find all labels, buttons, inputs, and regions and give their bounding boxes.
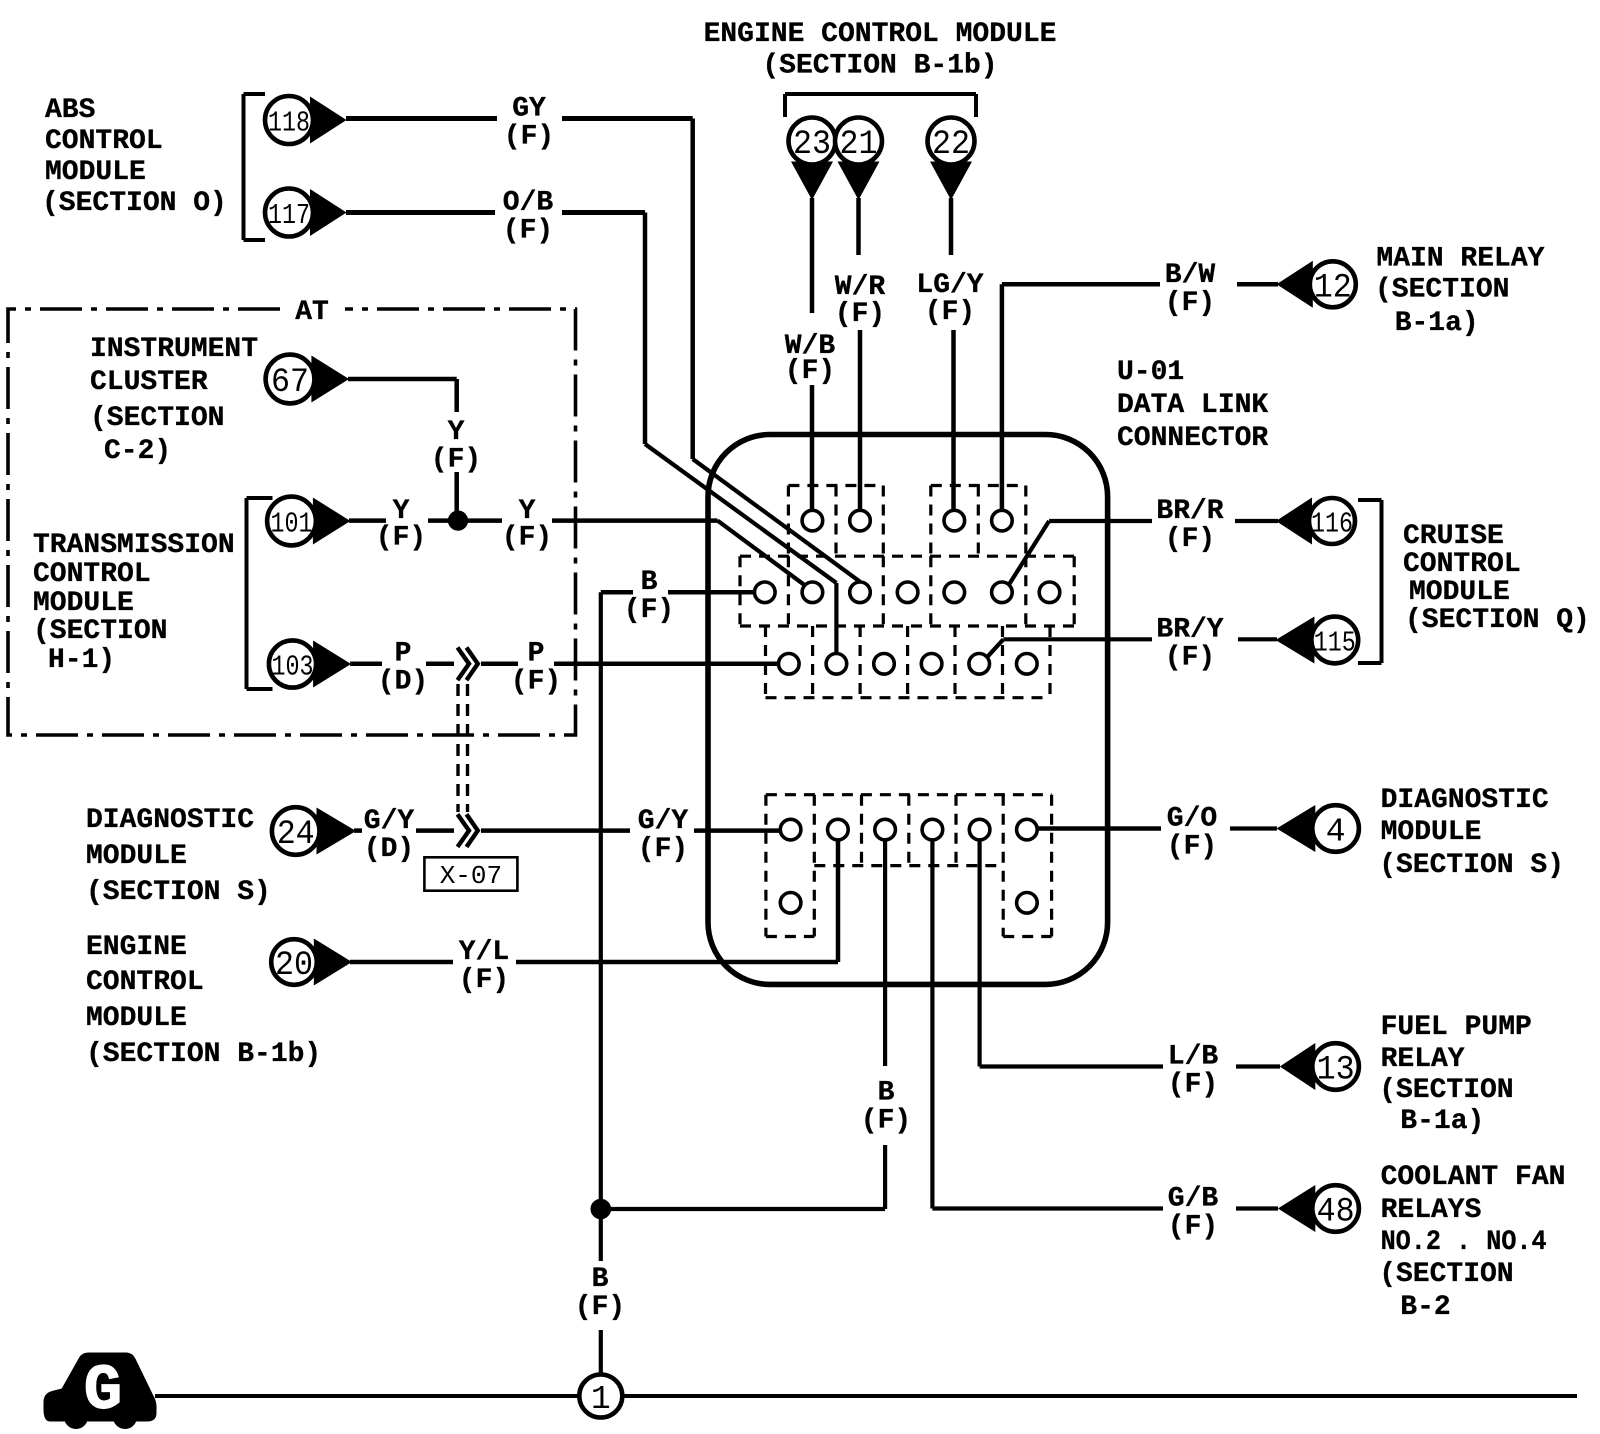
svg-text:P: P <box>395 639 412 670</box>
splice harness dashed pair X-07 <box>458 684 468 812</box>
svg-text:CONNECTOR: CONNECTOR <box>1117 423 1268 454</box>
svg-text:(F): (F) <box>861 1105 911 1136</box>
ABS bracket <box>244 94 266 240</box>
svg-text:(F): (F) <box>1167 831 1217 862</box>
svg-text:B-1a): B-1a) <box>1395 308 1479 339</box>
svg-text:G/B: G/B <box>1168 1183 1219 1214</box>
connector circle 67 with arrow <box>266 355 349 404</box>
connector circle 117 with arrow <box>265 189 347 237</box>
DLC row1 pins <box>802 510 1012 531</box>
svg-text:CONTROL: CONTROL <box>1403 549 1521 580</box>
connector circle 24 with arrow <box>272 807 356 855</box>
svg-text:103: 103 <box>272 650 314 683</box>
label MAIN RELAY (SECTION B-1a) <box>1375 243 1545 339</box>
label B (F) middle <box>861 1077 911 1136</box>
wire G/B from DLC row4 pin to coolant fan relays <box>932 841 1278 1209</box>
svg-text:B/W: B/W <box>1165 260 1216 291</box>
label AT <box>295 297 329 328</box>
DLC row3 pins <box>779 654 1038 675</box>
label BR/Y (F) <box>1156 614 1223 673</box>
svg-text:(F): (F) <box>504 121 554 152</box>
wire W/R from pin 21 to DLC pin row1-b <box>859 198 861 511</box>
svg-text:TRANSMISSION: TRANSMISSION <box>33 530 235 561</box>
svg-text:(F): (F) <box>459 965 509 996</box>
svg-text:(F): (F) <box>835 299 885 330</box>
junction dot B wire <box>591 1199 611 1219</box>
svg-text:MODULE: MODULE <box>1381 817 1482 848</box>
label COOLANT FAN RELAYS NO.2 NO.4 (SECTION B-2 <box>1379 1162 1565 1323</box>
svg-text:13: 13 <box>1317 1052 1355 1090</box>
svg-text:117: 117 <box>268 199 310 232</box>
svg-text:(SECTION: (SECTION <box>90 403 224 434</box>
wire L/B from DLC row4 pin to fuel pump relay <box>980 841 1280 1067</box>
connector circle 12 with arrow <box>1277 261 1356 308</box>
label TRANSMISSION CONTROL MODULE (SECTION H-1) <box>33 530 235 676</box>
svg-text:MODULE: MODULE <box>33 588 134 619</box>
svg-text:GY: GY <box>512 93 546 124</box>
svg-text:115: 115 <box>1314 626 1356 659</box>
connector circle 4 with arrow <box>1277 805 1359 852</box>
label ENGINE CONTROL MODULE (SECTION B-1b) left <box>86 932 321 1070</box>
svg-text:MODULE: MODULE <box>45 157 146 188</box>
svg-text:ENGINE CONTROL MODULE: ENGINE CONTROL MODULE <box>704 19 1057 50</box>
svg-text:RELAY: RELAY <box>1381 1044 1465 1075</box>
ground bus wire <box>155 1394 1577 1398</box>
svg-text:(SECTION: (SECTION <box>1379 1075 1513 1106</box>
svg-text:G/Y: G/Y <box>638 806 689 837</box>
svg-text:(SECTION O): (SECTION O) <box>42 188 227 219</box>
svg-text:(SECTION: (SECTION <box>1379 1259 1513 1290</box>
svg-text:MODULE: MODULE <box>86 1003 187 1034</box>
svg-text:ENGINE: ENGINE <box>86 932 187 963</box>
label CRUISE CONTROL MODULE (SECTION Q) <box>1403 521 1590 636</box>
svg-text:B: B <box>592 1264 609 1295</box>
label Y (F) on 67 wire <box>431 417 481 476</box>
svg-text:BR/Y: BR/Y <box>1156 614 1223 645</box>
svg-text:(F): (F) <box>1165 288 1215 319</box>
label GY (F) <box>504 93 554 152</box>
label W/B (F) <box>785 331 836 387</box>
svg-text:(F): (F) <box>1168 1211 1218 1242</box>
DLC row4 pins <box>780 819 1037 840</box>
label B (F) bottom <box>575 1264 625 1323</box>
svg-text:DATA LINK: DATA LINK <box>1117 390 1268 421</box>
wire W/B from pin 23 to DLC pin row1-a <box>810 198 815 511</box>
svg-text:B: B <box>641 567 658 598</box>
label LG/Y (F) <box>916 270 983 328</box>
wire G/O from DLC row4 pin to diagnostic module <box>1038 826 1278 831</box>
svg-text:DIAGNOSTIC: DIAGNOSTIC <box>1381 785 1549 816</box>
svg-text:(D): (D) <box>364 834 414 865</box>
U-01 data link connector outline <box>708 435 1108 985</box>
svg-text:RELAYS: RELAYS <box>1381 1195 1482 1226</box>
svg-text:12: 12 <box>1314 270 1352 308</box>
svg-text:(F): (F) <box>511 667 561 698</box>
svg-text:(SECTION: (SECTION <box>33 616 167 647</box>
svg-text:C-2): C-2) <box>104 436 171 467</box>
label DIAGNOSTIC MODULE (SECTION S) right <box>1379 785 1564 881</box>
TCM bracket <box>247 498 273 689</box>
label DIAGNOSTIC MODULE (SECTION S) <box>86 805 271 908</box>
connector circle 23 with arrow <box>789 118 836 201</box>
connector circle 118 with arrow <box>265 96 347 144</box>
svg-text:MAIN RELAY: MAIN RELAY <box>1376 243 1544 274</box>
label O/B (F) <box>503 187 554 246</box>
svg-text:FUEL PUMP: FUEL PUMP <box>1381 1012 1532 1043</box>
label FUEL PUMP RELAY (SECTION B-1a) <box>1379 1012 1532 1137</box>
label INSTRUMENT CLUSTER (SECTION C-2) <box>90 334 258 467</box>
connector circle 48 with arrow <box>1278 1185 1359 1232</box>
connector circle 115 with arrow <box>1276 617 1359 664</box>
svg-text:U-01: U-01 <box>1117 357 1184 388</box>
svg-text:ABS: ABS <box>45 95 95 126</box>
wire Y from 67 to junction <box>348 379 457 514</box>
ECM bracket <box>785 94 976 117</box>
label G/B (F) <box>1168 1183 1219 1242</box>
svg-text:(F): (F) <box>624 595 674 626</box>
svg-text:(F): (F) <box>785 356 835 387</box>
connector circle 103 with arrow <box>269 640 351 687</box>
svg-text:DIAGNOSTIC: DIAGNOSTIC <box>86 805 254 836</box>
svg-text:(F): (F) <box>1168 1069 1218 1100</box>
label Y (F) first <box>376 496 426 554</box>
svg-text:P: P <box>528 639 545 670</box>
svg-text:MODULE: MODULE <box>1409 577 1510 608</box>
wire Y from 101 through junction into DLC, diagonal to row2 pin <box>349 521 807 587</box>
svg-text:AT: AT <box>295 297 329 328</box>
label B/W (F) <box>1165 260 1216 319</box>
label P (D) <box>378 639 428 698</box>
svg-text:O/B: O/B <box>503 187 554 218</box>
ground connector circle 1 <box>579 1375 622 1418</box>
svg-text:L/B: L/B <box>1168 1041 1219 1072</box>
DLC row2 pins <box>755 582 1060 603</box>
connector circle 21 with arrow <box>835 118 882 201</box>
svg-text:24: 24 <box>277 816 315 854</box>
wire O/B: horizontal from 117, down, diagonal to DLC row3 pin <box>346 213 836 654</box>
svg-text:21: 21 <box>840 126 878 164</box>
svg-text:G/O: G/O <box>1167 803 1217 834</box>
svg-text:48: 48 <box>1317 1194 1355 1232</box>
wire B from DLC row2 pin left, down to junction <box>601 592 754 1209</box>
label Y (F) second <box>502 496 552 554</box>
svg-text:(F): (F) <box>376 522 426 553</box>
svg-text:CRUISE: CRUISE <box>1403 521 1504 552</box>
svg-text:(SECTION B-1b): (SECTION B-1b) <box>762 50 997 81</box>
wire LG/Y from pin 22 to DLC pin row1-c <box>951 198 954 511</box>
label P (F) <box>511 639 561 698</box>
svg-text:CONTROL: CONTROL <box>45 126 163 157</box>
junction dot Y wire <box>448 511 467 530</box>
svg-text:(D): (D) <box>378 667 428 698</box>
X-07 box <box>424 857 517 891</box>
wire BR/R from DLC row2 pin to cruise control <box>1009 521 1278 585</box>
svg-text:(SECTION S): (SECTION S) <box>1379 850 1564 881</box>
svg-text:4: 4 <box>1326 813 1346 850</box>
wire B to ground connector 1 <box>599 1209 603 1374</box>
svg-text:Y: Y <box>448 417 465 448</box>
svg-text:(F): (F) <box>431 444 481 475</box>
svg-text:B: B <box>878 1077 895 1108</box>
label W/R (F) <box>835 272 886 330</box>
svg-text:B-2: B-2 <box>1400 1292 1450 1323</box>
svg-text:Y/L: Y/L <box>459 937 509 968</box>
svg-text:(F): (F) <box>502 522 552 553</box>
svg-text:(F): (F) <box>1165 524 1215 555</box>
label Y/L (F) <box>459 937 509 996</box>
svg-text:NO.2 . NO.4: NO.2 . NO.4 <box>1381 1227 1547 1258</box>
wire Y/L from 20 into DLC to row4 pin <box>350 841 838 963</box>
svg-text:(F): (F) <box>503 215 553 246</box>
splice chevrons on P wire <box>458 648 478 681</box>
wire B from DLC row4 pin down to junction <box>601 841 885 1210</box>
svg-text:(SECTION S): (SECTION S) <box>86 877 271 908</box>
label BR/R (F) <box>1156 496 1223 555</box>
svg-text:H-1): H-1) <box>48 645 115 676</box>
DLC row3 dashed band <box>766 626 1051 698</box>
connector circle 101 with arrow <box>267 497 350 546</box>
svg-text:22: 22 <box>932 126 970 164</box>
wire P from 103 to DLC row3 pin <box>350 662 779 667</box>
wire BR/Y from DLC row3 pin to cruise control <box>988 639 1278 656</box>
AT harness box (dash-dot) <box>8 309 576 735</box>
svg-text:(SECTION B-1b): (SECTION B-1b) <box>86 1039 321 1070</box>
svg-text:MODULE: MODULE <box>86 841 187 872</box>
connector circle 116 with arrow <box>1276 498 1355 545</box>
svg-text:CONTROL: CONTROL <box>86 967 204 998</box>
label ENGINE CONTROL MODULE (SECTION B-1b) <box>704 19 1057 81</box>
svg-text:G: G <box>84 1356 122 1428</box>
svg-text:(SECTION Q): (SECTION Q) <box>1405 605 1590 636</box>
label U-01 DATA LINK CONNECTOR <box>1117 357 1268 454</box>
DLC row5 pins <box>780 893 1037 914</box>
svg-text:BR/R: BR/R <box>1156 496 1223 527</box>
svg-text:116: 116 <box>1311 507 1353 540</box>
connector circle 22 with arrow <box>928 118 975 201</box>
svg-text:B-1a): B-1a) <box>1400 1106 1484 1137</box>
svg-text:23: 23 <box>793 126 831 164</box>
label B (F) row2 <box>624 567 674 626</box>
cruise bracket <box>1358 500 1382 663</box>
svg-text:COOLANT FAN: COOLANT FAN <box>1381 1162 1566 1193</box>
wire B/W from DLC row1 pin to main relay <box>1002 284 1278 510</box>
label G/Y (D) <box>364 806 415 865</box>
svg-text:INSTRUMENT: INSTRUMENT <box>90 334 258 365</box>
svg-text:G/Y: G/Y <box>364 806 415 837</box>
svg-text:67: 67 <box>271 364 309 402</box>
label ABS CONTROL MODULE (SECTION O) <box>42 95 227 219</box>
svg-text:(F): (F) <box>1165 642 1215 673</box>
svg-text:(F): (F) <box>638 834 688 865</box>
svg-text:(SECTION: (SECTION <box>1375 274 1509 305</box>
wire G/Y from 24 to DLC row4 pin <box>354 828 781 833</box>
svg-text:1: 1 <box>591 1381 611 1418</box>
svg-text:CONTROL: CONTROL <box>33 559 151 590</box>
svg-text:(F): (F) <box>575 1292 625 1323</box>
svg-text:CLUSTER: CLUSTER <box>90 367 208 398</box>
connector circle 20 with arrow <box>271 939 352 986</box>
label G/O (F) <box>1167 803 1217 862</box>
DLC lower dashed cells <box>766 795 1052 937</box>
svg-text:(F): (F) <box>925 297 975 328</box>
splice chevrons on G/Y wire <box>458 814 478 847</box>
label L/B (F) <box>1168 1041 1219 1100</box>
label G/Y (F) <box>638 806 689 865</box>
svg-text:20: 20 <box>275 947 313 985</box>
DLC upper row1 dashed cells <box>788 486 1025 557</box>
DLC row2 dashed band <box>740 556 1074 626</box>
svg-text:X-07: X-07 <box>440 861 502 891</box>
svg-text:101: 101 <box>271 507 313 540</box>
wire GY: horizontal from 118, down, diagonal to DLC row2 pin <box>346 119 860 582</box>
connector circle 13 with arrow <box>1280 1043 1359 1090</box>
ground car icon G <box>44 1353 156 1429</box>
svg-text:118: 118 <box>268 106 310 139</box>
